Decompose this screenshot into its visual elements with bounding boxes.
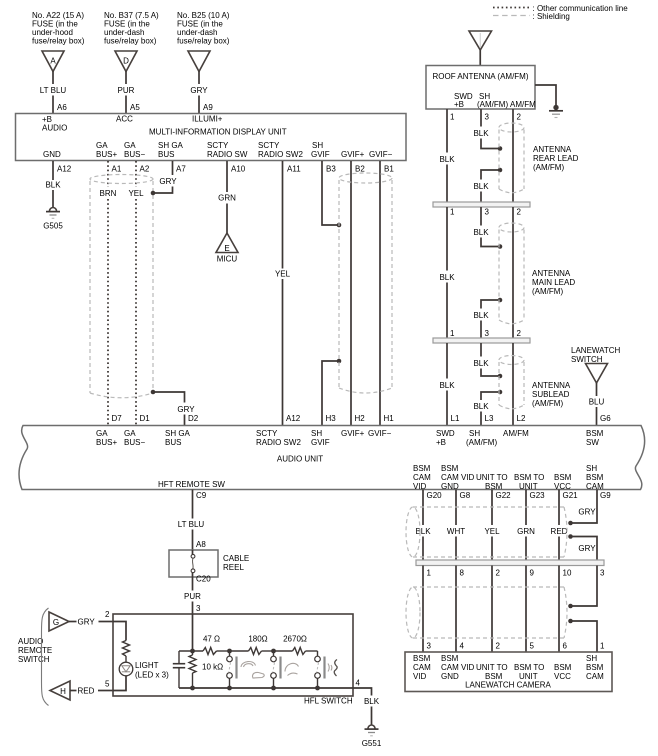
wire camera pin2 bbox=[491, 566, 493, 653]
svg-text:2: 2 bbox=[496, 642, 501, 651]
svg-text:BSM: BSM bbox=[413, 654, 431, 663]
svg-text:BLK: BLK bbox=[473, 359, 489, 368]
wire BRN GA BUS+ pin A1 to D7 (dotted comm line) bbox=[100, 161, 123, 425]
junction shield bottom GA BUS bbox=[151, 390, 156, 395]
svg-text:LANEWATCH: LANEWATCH bbox=[571, 346, 621, 355]
svg-text:BLK: BLK bbox=[439, 273, 455, 282]
svg-text:C20: C20 bbox=[196, 575, 211, 584]
svg-text:UNIT TO: UNIT TO bbox=[476, 663, 508, 672]
svg-text:2: 2 bbox=[517, 329, 522, 338]
svg-text:GRY: GRY bbox=[177, 405, 195, 414]
svg-text:VCC: VCC bbox=[554, 672, 571, 681]
wire WHT G8 BSM CAM VID GND bbox=[447, 490, 471, 561]
svg-text:10 kΩ: 10 kΩ bbox=[202, 663, 223, 672]
LED light (LED x 3) bbox=[119, 656, 169, 680]
svg-text:A7: A7 bbox=[176, 165, 186, 174]
svg-text:VID: VID bbox=[413, 672, 427, 681]
svg-text:WHT: WHT bbox=[447, 527, 465, 536]
svg-text:BSM: BSM bbox=[586, 429, 604, 438]
svg-text:E: E bbox=[224, 244, 229, 253]
svg-text:LT BLU: LT BLU bbox=[178, 520, 205, 529]
icon talk bbox=[241, 662, 264, 678]
svg-text:GVIF: GVIF bbox=[311, 438, 330, 447]
svg-text:UNIT TO: UNIT TO bbox=[476, 473, 508, 482]
wire LT BLU fuse A to pin A6 bbox=[40, 72, 68, 114]
wire GRY shield to bar pin3 bbox=[571, 537, 598, 561]
svg-text:VID: VID bbox=[413, 482, 427, 491]
svg-text:GVIF: GVIF bbox=[311, 150, 330, 159]
svg-text:GRY: GRY bbox=[159, 177, 177, 186]
svg-text:4: 4 bbox=[460, 642, 465, 651]
svg-text:GRY: GRY bbox=[190, 86, 208, 95]
svg-text:GRY: GRY bbox=[578, 508, 596, 517]
svg-text:LIGHT: LIGHT bbox=[135, 661, 159, 670]
switch 3 bbox=[315, 651, 325, 688]
resistor 2670 Ohm bbox=[274, 635, 318, 655]
wire BLK sublead pin3 upper bbox=[473, 343, 500, 376]
wire BLK main lead pin3 upper bbox=[473, 207, 500, 247]
svg-text:H: H bbox=[60, 687, 66, 696]
svg-text:BLK: BLK bbox=[439, 155, 455, 164]
svg-text:3: 3 bbox=[600, 569, 605, 578]
shield antenna sublead bbox=[499, 356, 524, 409]
junction lower shield top bbox=[568, 604, 573, 609]
wire PUR cable reel C20 to HFL switch pin3 bbox=[184, 575, 211, 615]
wire camera pin6 bbox=[558, 566, 560, 653]
ground at roof antenna bbox=[549, 111, 563, 118]
junction upper shield top bbox=[568, 521, 573, 526]
capacitor bbox=[173, 651, 185, 688]
svg-text:SCTY: SCTY bbox=[207, 141, 229, 150]
pin labels above bar2 bbox=[450, 329, 522, 338]
wire BLK pin4 to ground bbox=[353, 679, 380, 725]
HFL switch box bbox=[113, 614, 353, 706]
svg-text:(LED x 3): (LED x 3) bbox=[135, 671, 169, 680]
svg-text:ACC: ACC bbox=[116, 115, 133, 124]
wire LED to pin5 bbox=[113, 676, 126, 691]
shield around GA BUS pair bbox=[90, 175, 153, 398]
svg-text:SH GA: SH GA bbox=[158, 141, 184, 150]
svg-text:BUS+: BUS+ bbox=[96, 150, 117, 159]
svg-text:G505: G505 bbox=[43, 222, 63, 231]
svg-text:SH: SH bbox=[586, 654, 597, 663]
svg-text:SWITCH: SWITCH bbox=[571, 355, 603, 364]
svg-text:BSM: BSM bbox=[413, 464, 431, 473]
svg-text:1: 1 bbox=[600, 642, 605, 651]
svg-text:BSM TO: BSM TO bbox=[514, 663, 544, 672]
wire BLK sublead pin1 to L1 bbox=[439, 343, 460, 425]
ground G505 bbox=[43, 208, 63, 231]
svg-text:B3: B3 bbox=[326, 165, 336, 174]
resistor 180 Ohm bbox=[230, 635, 274, 655]
wire GVIF- pin B1 to H1 bbox=[380, 161, 394, 425]
svg-text:BLK: BLK bbox=[45, 181, 61, 190]
svg-text:2: 2 bbox=[517, 113, 522, 122]
wire pin2 to LED resistor bbox=[113, 622, 126, 641]
svg-text:BSM: BSM bbox=[485, 482, 503, 491]
svg-text:BSM: BSM bbox=[441, 654, 459, 663]
fuse B37 label bbox=[104, 11, 159, 46]
svg-text:SWD: SWD bbox=[436, 429, 455, 438]
svg-text:3: 3 bbox=[485, 208, 490, 217]
wire GRN G23 BSM TO UNIT bbox=[517, 490, 545, 561]
svg-text:CAM: CAM bbox=[586, 482, 604, 491]
svg-text:REAR LEAD: REAR LEAD bbox=[533, 154, 579, 163]
svg-text:BLK: BLK bbox=[364, 697, 380, 706]
svg-text:B2: B2 bbox=[355, 165, 365, 174]
wire roof antenna case ground bbox=[535, 85, 559, 110]
svg-text:CAM VID: CAM VID bbox=[441, 663, 475, 672]
svg-text:2: 2 bbox=[105, 610, 110, 619]
svg-text:HFT REMOTE SW: HFT REMOTE SW bbox=[158, 480, 225, 489]
svg-text:BUS+: BUS+ bbox=[96, 438, 117, 447]
svg-text:9: 9 bbox=[530, 569, 535, 578]
audio remote switch bracket bbox=[42, 608, 49, 706]
inline connector bar camera bbox=[416, 560, 604, 566]
roof antenna box bbox=[426, 66, 536, 110]
svg-text:A8: A8 bbox=[196, 540, 206, 549]
svg-text:fuse/relay box): fuse/relay box) bbox=[104, 37, 157, 46]
wire BLK main shield to bar2 bbox=[473, 300, 500, 338]
top bus capacitor segment bbox=[179, 650, 203, 652]
svg-text:G551: G551 bbox=[362, 739, 382, 748]
junction sublead shield top bbox=[498, 374, 503, 379]
shield around GVIF pair bbox=[339, 173, 392, 393]
svg-text:CAM VID: CAM VID bbox=[441, 473, 475, 482]
wire pin B3 SH GVIF to shield bbox=[322, 161, 339, 225]
svg-text:AM/FM: AM/FM bbox=[503, 429, 529, 438]
wire GRY G9 SH BSM CAM to shield bbox=[571, 490, 612, 524]
junction rear shield top bbox=[498, 146, 503, 151]
svg-text:BUS: BUS bbox=[158, 150, 174, 159]
svg-text:G22: G22 bbox=[496, 491, 512, 500]
wire BLK SWD+B roof antenna pin1 to connector bbox=[439, 109, 455, 202]
junction top bus pin3 bbox=[190, 649, 195, 654]
label antenna rear lead bbox=[533, 145, 579, 172]
svg-text:GA: GA bbox=[124, 429, 136, 438]
svg-text:BSM: BSM bbox=[554, 473, 572, 482]
wire YEL GA BUS- pin A2 to D1 (dotted comm line) bbox=[128, 161, 150, 425]
junction sublead shield bottom bbox=[498, 390, 503, 395]
inline connector bar 2 bbox=[433, 338, 530, 343]
svg-text:C9: C9 bbox=[196, 491, 207, 500]
connector H bbox=[50, 681, 70, 700]
svg-text:AUDIO: AUDIO bbox=[42, 124, 67, 133]
svg-text:2: 2 bbox=[517, 208, 522, 217]
svg-text:SH: SH bbox=[586, 464, 597, 473]
svg-text:G21: G21 bbox=[563, 491, 579, 500]
wire camera pin3 bbox=[422, 566, 424, 653]
svg-text:(AM/FM): (AM/FM) bbox=[532, 287, 563, 296]
svg-text:GVIF+: GVIF+ bbox=[341, 429, 365, 438]
svg-text:H3: H3 bbox=[326, 414, 337, 423]
fuse B25 connector bbox=[188, 51, 210, 72]
svg-text:: Shielding: : Shielding bbox=[533, 12, 570, 21]
resistor 47 Ohm bbox=[203, 635, 230, 655]
svg-text:+B: +B bbox=[436, 438, 446, 447]
svg-text:PUR: PUR bbox=[118, 86, 135, 95]
svg-text:A11: A11 bbox=[287, 165, 301, 174]
svg-text:H2: H2 bbox=[355, 414, 366, 423]
cable reel bbox=[169, 550, 249, 577]
label antenna sublead bbox=[532, 381, 571, 408]
wire LT BLU pin C9 HFT REMOTE SW to cable reel A8 bbox=[178, 490, 207, 551]
svg-text:PUR: PUR bbox=[184, 592, 201, 601]
resistor LED branch bbox=[123, 641, 130, 657]
wire RED G21 BSM VCC bbox=[551, 490, 579, 561]
svg-text:180Ω: 180Ω bbox=[248, 635, 267, 644]
svg-text:GA: GA bbox=[96, 429, 108, 438]
shield antenna rear lead bbox=[499, 123, 524, 193]
svg-text:BSM TO: BSM TO bbox=[514, 473, 544, 482]
shield camera harness lower bbox=[406, 587, 567, 638]
svg-text:A9: A9 bbox=[203, 103, 213, 112]
svg-text:SWITCH: SWITCH bbox=[18, 655, 50, 664]
wire GRY shield to pin D2 SH GA BUS bbox=[153, 392, 199, 425]
wire BLK sublead shield to L3 bbox=[473, 392, 500, 425]
inline connector bar 1 bbox=[433, 202, 530, 207]
junction lower shield bottom bbox=[568, 619, 573, 624]
bottom bus of HFL resistor network bbox=[179, 686, 353, 691]
svg-text:GND: GND bbox=[441, 672, 459, 681]
junction main shield top bbox=[498, 244, 503, 249]
wire GRY pin A7 SH GA BUS to shield bbox=[153, 161, 186, 193]
svg-text:3: 3 bbox=[427, 642, 432, 651]
svg-text:SCTY: SCTY bbox=[256, 429, 278, 438]
svg-text:A2: A2 bbox=[140, 165, 150, 174]
wire BLK SH(AM/FM) roof antenna pin3 upper bbox=[473, 109, 500, 149]
pin labels above camera box bbox=[427, 642, 606, 651]
wire BLU lanewatch switch to G6 bbox=[589, 383, 612, 425]
svg-text:+B: +B bbox=[454, 100, 464, 109]
svg-text:(AM/FM): (AM/FM) bbox=[533, 163, 564, 172]
wire GRN pin A10 SCTY RADIO SW to MICU bbox=[218, 161, 246, 233]
svg-text:1: 1 bbox=[450, 113, 455, 122]
wire BLK pin A12 to ground bbox=[45, 161, 71, 207]
pin labels below camera bar bbox=[427, 569, 606, 578]
svg-text:HFL SWITCH: HFL SWITCH bbox=[304, 697, 353, 706]
svg-text:GVIF−: GVIF− bbox=[369, 150, 393, 159]
svg-text:BLK: BLK bbox=[415, 527, 431, 536]
svg-text:1: 1 bbox=[450, 329, 455, 338]
svg-text:D7: D7 bbox=[112, 414, 123, 423]
svg-text:D1: D1 bbox=[140, 414, 151, 423]
svg-text:ANTENNA: ANTENNA bbox=[532, 269, 571, 278]
svg-text:G: G bbox=[53, 618, 59, 627]
lanewatch switch connector bbox=[586, 364, 608, 384]
wire lower shield to camera pin1 bbox=[571, 621, 598, 652]
svg-text:A: A bbox=[50, 57, 56, 66]
wire BLK main lead pin1 bbox=[439, 207, 455, 338]
svg-text:GRY: GRY bbox=[578, 544, 596, 553]
svg-text:MAIN LEAD: MAIN LEAD bbox=[532, 278, 575, 287]
svg-text:LT BLU: LT BLU bbox=[40, 86, 67, 95]
junction GVIF shield top bbox=[337, 223, 342, 228]
svg-text:GND: GND bbox=[43, 150, 61, 159]
svg-text:BSM: BSM bbox=[586, 663, 604, 672]
svg-text:A12: A12 bbox=[286, 414, 301, 423]
svg-text:G20: G20 bbox=[427, 491, 443, 500]
svg-text:AUDIO: AUDIO bbox=[18, 637, 43, 646]
svg-text:D: D bbox=[123, 57, 129, 66]
legend: other communication line swatch bbox=[493, 4, 628, 13]
wire AM/FM main lead pin2 bbox=[512, 207, 514, 338]
svg-text:BSM: BSM bbox=[441, 464, 459, 473]
svg-text:SH GA: SH GA bbox=[165, 429, 191, 438]
svg-text:A12: A12 bbox=[57, 165, 72, 174]
svg-text:47 Ω: 47 Ω bbox=[203, 635, 220, 644]
svg-text:GVIF−: GVIF− bbox=[368, 429, 392, 438]
svg-text:G23: G23 bbox=[530, 491, 546, 500]
svg-text:RADIO SW: RADIO SW bbox=[207, 150, 248, 159]
svg-text:A1: A1 bbox=[112, 165, 122, 174]
svg-text:GRY: GRY bbox=[78, 618, 96, 627]
svg-text:BUS−: BUS− bbox=[124, 150, 145, 159]
svg-text:10: 10 bbox=[563, 569, 572, 578]
svg-text:UNIT: UNIT bbox=[519, 482, 538, 491]
wire GVIF+ pin B2 to H2 bbox=[351, 161, 365, 425]
connector E MICU bbox=[216, 233, 238, 264]
junction upper shield bottom bbox=[568, 534, 573, 539]
svg-text:CAM: CAM bbox=[413, 663, 431, 672]
svg-text:BLK: BLK bbox=[473, 311, 489, 320]
svg-text:2670Ω: 2670Ω bbox=[283, 635, 307, 644]
svg-text:2: 2 bbox=[496, 569, 501, 578]
svg-text:REEL: REEL bbox=[223, 563, 244, 572]
junction shield top GA BUS bbox=[151, 191, 156, 196]
wire YEL pin A11 SCTY RADIO SW2 to audio unit A12 bbox=[275, 161, 301, 425]
svg-text:8: 8 bbox=[460, 569, 465, 578]
resistor 10 kOhm bbox=[189, 651, 223, 688]
svg-text:GA: GA bbox=[96, 141, 108, 150]
svg-text:L3: L3 bbox=[485, 414, 494, 423]
pin 3 label under roof antenna bbox=[485, 113, 490, 122]
svg-text:YEL: YEL bbox=[128, 189, 144, 198]
svg-text:AUDIO UNIT: AUDIO UNIT bbox=[277, 455, 323, 464]
svg-text:A10: A10 bbox=[231, 165, 246, 174]
svg-text:SH: SH bbox=[311, 429, 322, 438]
svg-text:BLK: BLK bbox=[439, 381, 455, 390]
svg-text:4: 4 bbox=[356, 679, 361, 688]
svg-text:SW: SW bbox=[586, 438, 599, 447]
shield antenna main lead bbox=[499, 223, 524, 324]
icon handset bbox=[285, 663, 299, 675]
svg-text:1: 1 bbox=[450, 208, 455, 217]
switch 2 bbox=[271, 651, 281, 688]
svg-text:SH: SH bbox=[312, 141, 323, 150]
svg-text:D2: D2 bbox=[188, 414, 199, 423]
pin 1 label under roof antenna bbox=[450, 113, 455, 122]
wire BLK G20 BSM CAM VID bbox=[415, 490, 442, 561]
svg-text:VCC: VCC bbox=[554, 482, 571, 491]
svg-text:3: 3 bbox=[485, 113, 490, 122]
svg-text:A6: A6 bbox=[57, 103, 67, 112]
wire PUR fuse D to pin A5 bbox=[118, 72, 141, 114]
svg-text:RADIO SW2: RADIO SW2 bbox=[258, 150, 303, 159]
svg-text:GVIF+: GVIF+ bbox=[341, 150, 365, 159]
svg-text:BUS: BUS bbox=[165, 438, 181, 447]
svg-text:L2: L2 bbox=[517, 414, 526, 423]
svg-text:BLK: BLK bbox=[473, 129, 489, 138]
svg-text:CAM: CAM bbox=[586, 672, 604, 681]
svg-text:G8: G8 bbox=[460, 491, 471, 500]
svg-text:BUS−: BUS− bbox=[124, 438, 145, 447]
svg-text:RADIO SW2: RADIO SW2 bbox=[256, 438, 301, 447]
lanewatch camera box bbox=[405, 652, 612, 692]
svg-text:RED: RED bbox=[78, 687, 95, 696]
junction node switch1 bbox=[227, 649, 232, 654]
svg-text:G6: G6 bbox=[600, 414, 611, 423]
svg-text:SH: SH bbox=[469, 429, 480, 438]
lanewatch switch label bbox=[571, 346, 621, 364]
pin labels below bar1 bbox=[450, 208, 522, 217]
svg-text:MICU: MICU bbox=[217, 255, 238, 264]
svg-text:BSM: BSM bbox=[554, 663, 572, 672]
wire bar pin3 to lower shield bbox=[571, 566, 598, 607]
svg-text:CABLE: CABLE bbox=[223, 554, 249, 563]
icon volume bbox=[328, 660, 337, 677]
audio unit box bbox=[19, 426, 645, 492]
svg-text:REMOTE: REMOTE bbox=[18, 646, 52, 655]
svg-text:YEL: YEL bbox=[484, 527, 500, 536]
svg-text:GA: GA bbox=[124, 141, 136, 150]
wire camera pin4 bbox=[455, 566, 457, 653]
svg-text:ILLUMI+: ILLUMI+ bbox=[192, 115, 223, 124]
svg-text:L1: L1 bbox=[451, 414, 460, 423]
svg-text:GRN: GRN bbox=[517, 527, 535, 536]
svg-text:BLU: BLU bbox=[589, 398, 605, 407]
svg-text:B1: B1 bbox=[384, 165, 394, 174]
switch 1 bbox=[227, 651, 237, 688]
svg-text:fuse/relay box): fuse/relay box) bbox=[177, 37, 230, 46]
fuse A22 connector A bbox=[42, 51, 64, 72]
svg-text:CAM: CAM bbox=[413, 473, 431, 482]
ground G551 bbox=[362, 725, 382, 748]
svg-text:H1: H1 bbox=[384, 414, 395, 423]
wire GRY fuse to pin A9 bbox=[190, 72, 213, 114]
junction node switch2 bbox=[271, 649, 276, 654]
svg-text:(AM/FM): (AM/FM) bbox=[466, 438, 497, 447]
svg-text:5: 5 bbox=[530, 642, 535, 651]
wire camera pin5 bbox=[525, 566, 527, 653]
svg-text:SUBLEAD: SUBLEAD bbox=[532, 390, 570, 399]
junction GVIF shield bottom bbox=[337, 359, 342, 364]
fuse B25 label bbox=[177, 11, 230, 46]
wire GRY connector G to HFL pin2 bbox=[69, 610, 113, 627]
pin 2 label under roof antenna bbox=[517, 113, 522, 122]
svg-text:6: 6 bbox=[563, 642, 568, 651]
svg-text:3: 3 bbox=[196, 604, 201, 613]
svg-text:YEL: YEL bbox=[275, 270, 291, 279]
svg-text:GRN: GRN bbox=[218, 194, 236, 203]
svg-text:BSM: BSM bbox=[586, 473, 604, 482]
svg-text:BLK: BLK bbox=[473, 402, 489, 411]
svg-text:(AM/FM): (AM/FM) bbox=[477, 100, 508, 109]
wire RED connector H to HFL pin5 bbox=[70, 680, 113, 696]
multi-information display unit box bbox=[16, 114, 407, 161]
svg-text:MULTI-INFORMATION DISPLAY UNIT: MULTI-INFORMATION DISPLAY UNIT bbox=[149, 128, 287, 137]
svg-text:LANEWATCH CAMERA: LANEWATCH CAMERA bbox=[465, 681, 551, 690]
svg-text:ANTENNA: ANTENNA bbox=[532, 381, 571, 390]
svg-text:(AM/FM): (AM/FM) bbox=[532, 399, 563, 408]
junction main shield bottom bbox=[498, 298, 503, 303]
svg-text:RED: RED bbox=[551, 527, 568, 536]
svg-text:3: 3 bbox=[485, 329, 490, 338]
svg-text:BRN: BRN bbox=[100, 189, 117, 198]
wire AM/FM sublead pin2 to L2 bbox=[513, 343, 526, 425]
antenna mast symbol bbox=[469, 31, 492, 66]
svg-text:AM/FM: AM/FM bbox=[510, 100, 536, 109]
